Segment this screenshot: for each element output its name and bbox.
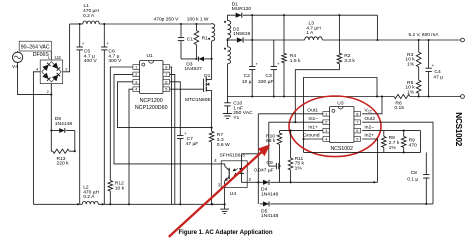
wire D6 R13 junction	[74, 131, 76, 152]
wire R2 bottom to In1-	[295, 64, 339, 122]
capacitor C1	[180, 24, 182, 38]
wire U3 Out2 loop	[362, 122, 433, 204]
red highlight ellipse	[289, 96, 381, 157]
output terminal return	[461, 95, 465, 99]
wire U3 In2+ loop	[362, 139, 377, 182]
wire top DC bus rail	[70, 23, 83, 25]
bridge diode upper-right	[52, 62, 58, 69]
capacitor C5 bulk	[79, 24, 81, 47]
U4 emitter ground	[224, 203, 226, 205]
svg-text:470p 250 V: 470p 250 V	[154, 17, 180, 23]
wire U3 VCC	[362, 97, 382, 114]
U1 pin 3	[133, 80, 140, 85]
inductor L2	[82, 201, 98, 204]
transformer secondary winding upper	[228, 20, 231, 38]
diode D4	[263, 180, 269, 185]
svg-text:1%: 1%	[295, 165, 303, 171]
svg-text:Q1: Q1	[204, 73, 211, 79]
primary phase dot	[208, 38, 210, 40]
wire U1 pin6 VCC to C7	[170, 82, 181, 136]
diode D1 MUR120	[236, 13, 242, 18]
svg-text:1: 1	[135, 64, 137, 69]
svg-text:1N5819: 1N5819	[233, 31, 251, 37]
svg-text:1%: 1%	[407, 61, 415, 67]
svg-text:47 µ: 47 µ	[433, 75, 443, 81]
svg-text:3.3 k: 3.3 k	[344, 58, 355, 64]
U4 phototransistor	[228, 168, 230, 179]
svg-text:C3: C3	[265, 73, 272, 79]
svg-text:MUR120: MUR120	[232, 6, 252, 12]
resistor R3 divider	[418, 40, 420, 52]
wire U1 pin3 current sense	[118, 82, 212, 128]
svg-text:In1–: In1–	[308, 116, 318, 122]
capacitor C9	[268, 122, 270, 166]
wire D5 to Out2	[270, 203, 433, 205]
svg-text:10 µ: 10 µ	[242, 79, 252, 85]
wire label box to bridge pin 1	[50, 51, 52, 60]
wire secondary bottom to ground rail	[227, 64, 229, 97]
label box 90-264 VAC	[19, 41, 51, 51]
red annotation arrow	[169, 148, 266, 237]
wire bridge pin 4 to ground rail	[33, 72, 40, 205]
U4 LED	[241, 161, 243, 168]
svg-text:+: +	[184, 131, 187, 136]
diode D6	[51, 130, 59, 132]
wire U3 In2-	[362, 130, 420, 132]
secondary ground return rail	[228, 96, 395, 98]
bridge rectifier U2 DF06S	[40, 60, 63, 84]
diode D3	[181, 58, 197, 60]
svg-text:5: 5	[356, 136, 358, 141]
wire U1 pin4 ground	[129, 89, 133, 204]
controller U3 NCS1002	[330, 107, 355, 143]
svg-text:MTD1N60E: MTD1N60E	[185, 97, 211, 103]
U3 pin 4	[323, 137, 330, 142]
capacitor C10 Y-cap	[227, 97, 229, 103]
wire D1 output top loop	[243, 14, 378, 16]
resistor R8	[383, 131, 385, 137]
bottom primary ground rail	[33, 203, 82, 205]
svg-text:5: 5	[165, 87, 167, 92]
U1 pin 5	[163, 87, 170, 92]
inductor L3	[305, 37, 323, 40]
svg-text:1.5 k: 1.5 k	[290, 58, 301, 64]
svg-text:In2+: In2+	[364, 133, 374, 139]
svg-text:1: 1	[48, 56, 50, 60]
svg-text:220 k: 220 k	[57, 161, 70, 167]
svg-text:NCS1002: NCS1002	[330, 146, 353, 152]
svg-text:5.2 V, 600 mA: 5.2 V, 600 mA	[409, 32, 440, 38]
U1 pin 1	[133, 65, 140, 70]
wire U3 In1+	[280, 130, 323, 132]
resistor R12	[108, 181, 113, 192]
svg-text:C4: C4	[434, 69, 441, 75]
capacitor C2	[251, 15, 253, 66]
wire U3 ground loop	[304, 151, 421, 153]
svg-text:0.2 A: 0.2 A	[83, 194, 95, 200]
wire In2- corner	[420, 131, 422, 153]
optocoupler U4 SFH6156-3	[221, 161, 247, 188]
svg-text:U1: U1	[147, 53, 154, 59]
svg-text:100 k 1 W: 100 k 1 W	[187, 17, 209, 23]
wire bridge pin 2 down	[50, 84, 52, 152]
svg-text:400 V: 400 V	[84, 58, 98, 64]
U3 pin 1	[323, 112, 330, 117]
svg-text:+: +	[106, 41, 109, 46]
controller U1 NCP1200	[140, 61, 164, 94]
wire U3 Out1 to opto LED	[258, 113, 323, 115]
svg-text:Ground: Ground	[303, 133, 320, 139]
svg-text:In1+: In1+	[308, 124, 318, 130]
svg-text:0.1 µ: 0.1 µ	[407, 176, 418, 182]
svg-text:6: 6	[165, 79, 167, 84]
transformer secondary winding lower	[228, 47, 231, 64]
wire U3 ground pin	[304, 138, 323, 140]
C10 earth ground	[223, 113, 232, 115]
svg-text:3: 3	[325, 128, 327, 133]
resistor R4	[283, 15, 285, 53]
bridge diode lower-left	[42, 73, 48, 80]
svg-text:8: 8	[356, 111, 358, 116]
svg-text:2: 2	[47, 90, 49, 94]
resistor R11	[290, 131, 292, 158]
capacitor C3	[273, 40, 275, 67]
svg-text:68 k: 68 k	[266, 138, 276, 144]
svg-text:+: +	[255, 62, 258, 67]
resistor R2	[338, 15, 340, 53]
secondary phase dot upper	[224, 21, 226, 23]
svg-text:0.6 W: 0.6 W	[217, 142, 230, 148]
wire feedback upper loop	[304, 78, 378, 153]
wire U1 pin5 gate drive	[170, 88, 201, 90]
svg-text:+: +	[82, 41, 85, 46]
svg-text:+: +	[277, 62, 280, 67]
svg-text:C2: C2	[244, 73, 251, 79]
secondary phase dot lower	[224, 48, 226, 50]
svg-text:NCS1002: NCS1002	[454, 112, 463, 146]
resistor R13	[53, 149, 70, 153]
wire U4 pin2 to diodes	[247, 181, 263, 183]
svg-text:1%: 1%	[407, 89, 415, 95]
capacitor C6 bulk	[103, 24, 105, 47]
U4 light arrows	[234, 169, 238, 171]
diode D5	[260, 203, 263, 205]
U1 pin 7	[163, 72, 170, 77]
svg-text:1N4148: 1N4148	[55, 121, 73, 127]
U3 pin 7	[354, 120, 361, 125]
svg-text:C8: C8	[411, 170, 418, 176]
wire V4 to label box	[17, 51, 19, 52]
U3 pin 2	[323, 120, 330, 125]
svg-text:1N4937: 1N4937	[184, 66, 202, 72]
svg-text:In2–: In2–	[364, 124, 374, 130]
wire U1 pin8	[170, 67, 172, 204]
inductor L1	[83, 21, 100, 24]
svg-text:3: 3	[65, 67, 67, 71]
MOSFET Q1 MTD1N60E	[211, 59, 213, 80]
U3 pin 6	[354, 128, 361, 133]
svg-text:R1: R1	[202, 36, 209, 42]
wire secondary tap to D2	[227, 38, 229, 46]
svg-text:CC: CC	[368, 110, 373, 114]
diode D2 1N5819	[237, 37, 243, 42]
wire U1 pin7	[170, 74, 175, 204]
svg-text:1: 1	[325, 111, 327, 116]
wire V4 bottom to bridge pin 2	[18, 62, 52, 94]
transformer primary winding	[211, 23, 213, 25]
svg-text:7: 7	[165, 72, 167, 77]
bridge diode lower-right	[52, 75, 58, 82]
svg-text:330 µF: 330 µF	[258, 79, 273, 85]
svg-text:4: 4	[36, 67, 38, 71]
U3 pin 3	[323, 128, 330, 133]
U1 pin 8	[163, 65, 170, 70]
svg-text:1%: 1%	[389, 145, 397, 151]
svg-text:3: 3	[135, 79, 137, 84]
svg-text:C9: C9	[266, 160, 273, 166]
svg-text:2: 2	[135, 72, 137, 77]
svg-text:1N4148: 1N4148	[261, 191, 279, 197]
svg-text:Y1: Y1	[233, 115, 239, 121]
U3 pin 8	[354, 112, 361, 117]
svg-text:90–264 VAC: 90–264 VAC	[21, 44, 50, 50]
svg-text:2: 2	[325, 120, 327, 125]
wire U1 pin2 to optocoupler U4	[114, 74, 221, 163]
svg-text:0.047 µF: 0.047 µF	[254, 167, 274, 173]
svg-text:Out1: Out1	[307, 107, 318, 113]
bridge diamond	[42, 62, 61, 82]
resistor R10	[277, 133, 282, 145]
svg-text:400 V: 400 V	[108, 58, 122, 64]
svg-text:NCP1200D60: NCP1200D60	[135, 105, 168, 111]
svg-text:1N4148: 1N4148	[261, 213, 279, 219]
U1 pin 6	[163, 80, 170, 85]
resistor R5 divider	[416, 80, 421, 93]
U1 pin 4	[133, 87, 140, 92]
svg-text:6: 6	[356, 128, 358, 133]
svg-text:0.2 A: 0.2 A	[83, 13, 95, 19]
U3 pin 5	[354, 137, 361, 142]
svg-text:47 µF: 47 µF	[186, 141, 199, 147]
svg-text:Out2: Out2	[364, 116, 375, 122]
svg-text:+: +	[432, 63, 435, 68]
svg-text:7: 7	[356, 120, 358, 125]
capacitor C7	[177, 135, 183, 137]
bridge diode upper-left	[42, 64, 48, 71]
svg-text:470: 470	[409, 142, 417, 148]
svg-text:U2: U2	[55, 55, 62, 61]
wire secondary top to D1	[228, 15, 236, 20]
svg-text:Figure 1. AC Adapter Applicati: Figure 1. AC Adapter Application	[178, 230, 272, 236]
svg-text:U4: U4	[230, 191, 237, 197]
wire U3 In1-	[269, 121, 323, 123]
wire opto LED branch	[242, 154, 259, 161]
wire U1 pin1 to R12	[110, 67, 133, 181]
svg-text:U3: U3	[337, 100, 344, 106]
svg-text:C1: C1	[187, 37, 194, 43]
resistor R7 sense	[209, 131, 214, 142]
resistor R9	[403, 131, 405, 137]
wire output bus 5.2V	[244, 39, 304, 41]
svg-text:NCP1200: NCP1200	[140, 98, 163, 104]
capacitor C8	[425, 152, 427, 174]
svg-text:10 k: 10 k	[115, 185, 125, 191]
resistor R1	[195, 24, 197, 31]
wire bridge pin 3 to top rail	[63, 24, 70, 72]
capacitor C4	[428, 40, 430, 68]
svg-text:0.15: 0.15	[394, 105, 404, 111]
resistor R6 sense	[394, 94, 410, 98]
U1 pin 2	[133, 72, 140, 77]
output terminal positive	[461, 38, 465, 42]
svg-text:1 A: 1 A	[306, 30, 314, 36]
svg-text:8: 8	[165, 64, 167, 69]
AC source V4	[13, 52, 23, 62]
